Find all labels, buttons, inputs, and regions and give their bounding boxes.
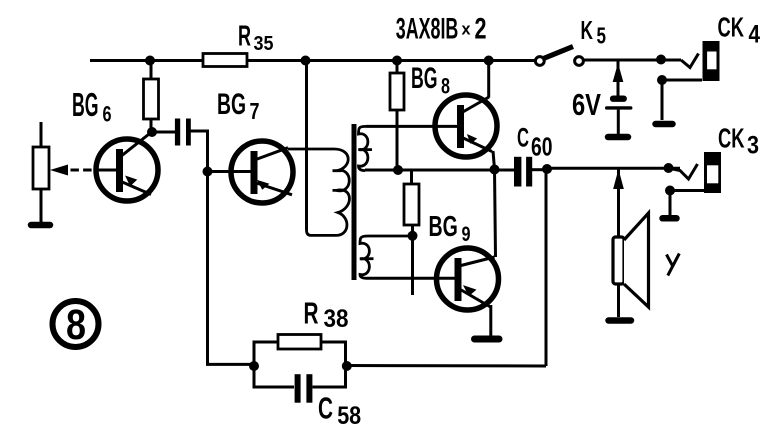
wire BG9 emitter to ground	[489, 305, 492, 336]
wiper arrow of potentiometer	[50, 165, 92, 176]
node dot CK3 sleeve	[665, 186, 675, 196]
wire BG8 emitter to node / BG9 collector	[493, 151, 496, 257]
ground CK3	[663, 215, 677, 222]
node junction dot rail A	[145, 56, 155, 66]
node junction dot C60 right	[542, 164, 552, 174]
wire feedback vertical	[545, 169, 548, 366]
node junction dot rail E	[656, 55, 666, 65]
svg-text:7: 7	[250, 98, 260, 124]
svg-text:C: C	[318, 390, 333, 425]
ground BG9 emitter	[475, 336, 500, 343]
ground CK4	[656, 121, 673, 128]
label R35	[238, 20, 274, 55]
node junction dot BG7 base	[203, 167, 213, 177]
wire top supply rail left segment	[90, 59, 536, 62]
label 6V	[572, 87, 601, 122]
svg-text:3AX8IB: 3AX8IB	[396, 13, 459, 46]
transformer primary winding	[288, 149, 349, 235]
node junction dot CK3 contact	[664, 163, 674, 173]
label BG7	[217, 88, 260, 124]
svg-text:BG: BG	[217, 88, 246, 121]
svg-text:60: 60	[531, 132, 553, 162]
wire feedback bottom right	[347, 364, 546, 368]
jack CK4 body	[703, 41, 720, 81]
transformer secondary top winding	[359, 126, 373, 170]
svg-text:BG: BG	[72, 86, 99, 123]
ground potentiometer	[31, 222, 50, 229]
wire speaker to ground	[617, 284, 620, 317]
node junction dot rail D	[484, 56, 494, 66]
transistor BG8	[435, 95, 497, 157]
capacitor C60	[514, 157, 547, 187]
node junction dot BG8 emitter	[490, 165, 500, 175]
svg-text:8: 8	[441, 73, 450, 98]
svg-text:R: R	[304, 296, 319, 331]
wire BG7 base feedback down	[208, 172, 255, 365]
svg-text:C: C	[517, 123, 529, 153]
svg-text:38: 38	[324, 305, 349, 333]
resistor BG6 collector load	[144, 60, 159, 132]
svg-text:9: 9	[462, 223, 471, 246]
transistor BG6	[94, 133, 158, 202]
node junction dot feedback left	[249, 361, 259, 371]
ground battery	[608, 134, 628, 141]
svg-text:58: 58	[337, 402, 361, 427]
figure number circled 8	[53, 301, 99, 349]
node junction dot feedback right	[342, 361, 352, 371]
label BG6	[72, 86, 112, 127]
node junction dot bias upper	[393, 165, 403, 175]
label BG8	[411, 62, 450, 98]
jack CK3 body	[704, 152, 721, 193]
wire speaker branch with arrow	[614, 169, 623, 238]
ground speaker	[609, 317, 632, 324]
label CK3	[718, 123, 759, 160]
svg-text:6V: 6V	[572, 87, 601, 122]
resistor R35	[203, 54, 247, 67]
label K5	[581, 15, 607, 49]
node junction dot bias lower	[408, 231, 418, 241]
jack CK3 contact spring	[668, 164, 698, 179]
svg-text:2: 2	[475, 13, 487, 46]
svg-text:BG: BG	[429, 211, 458, 243]
switch K5	[535, 47, 583, 66]
wire supply rail down to primary bottom	[305, 60, 308, 230]
label C60	[517, 123, 553, 162]
battery branch wire with arrow	[613, 60, 622, 96]
capacitor C58	[254, 366, 346, 403]
label 3AX8IB x2	[396, 13, 487, 46]
svg-text:8: 8	[66, 301, 86, 349]
wire bias node row	[365, 169, 514, 172]
transistor BG9	[437, 248, 499, 310]
label CK4	[718, 12, 761, 49]
wire CK4 sleeve to ground	[662, 80, 702, 120]
svg-text:K: K	[581, 15, 594, 45]
wire top rail right of switch	[583, 59, 681, 62]
transformer core	[352, 124, 357, 280]
svg-text:CK: CK	[718, 123, 745, 154]
svg-text:R: R	[238, 20, 251, 52]
svg-text:6: 6	[103, 102, 112, 127]
svg-text:3: 3	[747, 132, 759, 160]
label C58	[318, 390, 361, 427]
node junction dot BG6 collector	[147, 127, 157, 137]
label y	[667, 254, 680, 276]
svg-text:x: x	[462, 20, 472, 39]
svg-text:BG: BG	[411, 62, 438, 95]
node dot CK4 sleeve	[657, 75, 667, 85]
battery 6V plates	[605, 96, 632, 135]
label R38	[304, 296, 349, 334]
wire bias lower top lead	[410, 171, 413, 184]
svg-text:35: 35	[254, 33, 274, 55]
label BG9	[429, 211, 471, 246]
potentiometer (volume control)	[33, 122, 49, 222]
speaker Y	[613, 213, 649, 307]
resistor R38	[254, 335, 346, 367]
node junction dot rail C	[392, 56, 402, 66]
wire C60 node to output jack row	[547, 167, 680, 170]
wire secondary top to BG8 base	[366, 125, 456, 128]
svg-text:CK: CK	[718, 12, 745, 43]
resistor bias lower	[404, 184, 419, 295]
transformer secondary bottom winding	[360, 236, 413, 278]
svg-text:4: 4	[749, 21, 761, 49]
transistor BG7	[212, 141, 293, 203]
wire BG8 collector to rail	[487, 60, 490, 98]
capacitor coupling BG6-BG7	[152, 119, 208, 172]
node junction dot rail B	[301, 56, 311, 66]
wire CK3 sleeve to ground	[670, 191, 704, 216]
wire secondary bottom to BG9 base	[367, 277, 454, 280]
resistor bias upper	[390, 60, 404, 170]
svg-text:5: 5	[597, 22, 607, 48]
jack CK4 contact spring	[681, 54, 699, 68]
